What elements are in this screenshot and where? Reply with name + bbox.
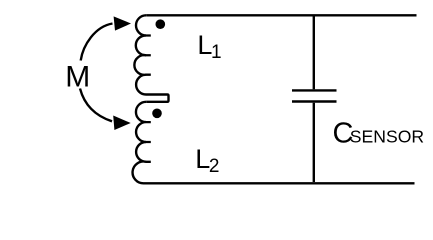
wire top (L1 top to right terminal)	[146, 14, 416, 16]
capacitor plate bottom	[292, 100, 337, 102]
L2 winding ticks	[146, 122, 151, 162]
capacitor C_SENSOR top lead	[313, 16, 315, 89]
svg-text:2: 2	[209, 156, 220, 177]
mutual coupling arrow lower	[80, 89, 112, 122]
mutual coupling arrow upper	[81, 24, 113, 61]
capacitor plate top	[292, 89, 337, 91]
wire bottom (L2 bottom to right terminal)	[144, 182, 415, 184]
polarity dot L1	[156, 19, 166, 29]
svg-text:1: 1	[211, 42, 222, 63]
inductor L1 winding	[134, 15, 168, 102]
svg-text:SENSOR: SENSOR	[350, 126, 424, 146]
svg-text:M: M	[65, 60, 90, 93]
capacitor C_SENSOR bottom lead	[313, 103, 315, 182]
polarity dot L2	[152, 109, 162, 119]
L1 winding ticks	[146, 36, 151, 75]
inductor L2 winding	[133, 102, 147, 184]
